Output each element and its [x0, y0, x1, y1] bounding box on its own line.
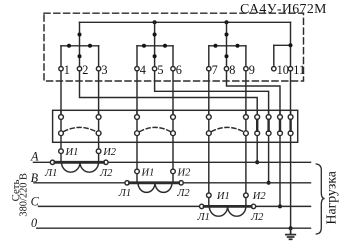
node bus tap phase C: [225, 20, 229, 24]
svg-text:Л2: Л2: [250, 212, 264, 223]
terminal 10: [272, 63, 289, 77]
test block column 2: [96, 110, 101, 142]
wire voltage tap neutral: [290, 143, 292, 229]
svg-text:И2: И2: [177, 167, 192, 178]
wire terminal 10-11 link: [274, 22, 293, 66]
test block outline: [53, 110, 298, 142]
element 3 internal wiring: [209, 22, 246, 66]
terminal 3: [96, 63, 107, 77]
svg-text:1: 1: [64, 63, 70, 77]
svg-text:11: 11: [293, 63, 305, 77]
test block column 6: [244, 110, 249, 142]
wire terminal 4 to test block: [136, 71, 138, 115]
element 1 internal wiring: [61, 22, 99, 66]
svg-text:И2: И2: [102, 147, 117, 158]
test block link column B: [266, 110, 271, 142]
wire block to TA1 secondary: [60, 143, 62, 149]
node tap B: [267, 181, 271, 185]
wire voltage tap phase B: [268, 143, 270, 183]
wire terminal 7 to test block: [208, 71, 210, 115]
node tap 0: [289, 226, 293, 230]
svg-text:Л1: Л1: [44, 168, 57, 179]
terminal 9: [244, 63, 255, 77]
node tap A: [255, 160, 259, 164]
svg-text:Л2: Л2: [176, 188, 190, 199]
svg-text:Л2: Л2: [99, 168, 113, 179]
element 2 internal wiring: [137, 22, 173, 66]
wire terminal 9 to test block: [245, 71, 247, 115]
svg-text:10: 10: [277, 63, 289, 77]
transformer TA2: [125, 169, 183, 192]
wire block to TA2 secondary: [136, 143, 138, 170]
test block column 5: [206, 110, 211, 142]
svg-text:2: 2: [82, 63, 88, 77]
svg-text:И1: И1: [216, 191, 230, 202]
test block link column A: [255, 110, 260, 142]
wire terminal 1 to test block: [60, 71, 62, 115]
terminal 1: [59, 63, 70, 77]
test block link column C: [278, 110, 283, 142]
wire phase C: [39, 205, 200, 207]
wire terminal 11 to test block: [290, 71, 292, 115]
svg-text:380/220 В: 380/220 В: [18, 173, 29, 217]
svg-text:A: A: [30, 150, 39, 164]
wire phase A: [34, 161, 51, 163]
wire voltage tap phase C: [279, 143, 281, 207]
wire terminal 2 to test block: [80, 71, 258, 115]
terminal 6: [171, 63, 182, 77]
svg-text:И1: И1: [65, 147, 79, 158]
svg-text:Нагрузка: Нагрузка: [324, 171, 339, 224]
meter dashed outline: [44, 13, 304, 81]
wire terminal 3 to test block: [98, 71, 100, 115]
svg-text:9: 9: [249, 63, 255, 77]
svg-text:И1: И1: [141, 167, 155, 178]
label Сеть 380/220 В: [10, 173, 30, 217]
wire phase B: [34, 182, 125, 184]
test block column 3: [135, 110, 140, 142]
svg-text:4: 4: [140, 63, 146, 77]
jumper arc 3: [212, 127, 244, 131]
terminal 8: [224, 63, 235, 77]
node bus tap phase B: [153, 20, 157, 24]
svg-text:И2: И2: [252, 191, 267, 202]
wire terminal 8 to test block: [227, 71, 281, 115]
wire terminal 6 to test block: [172, 71, 174, 115]
svg-text:3: 3: [101, 63, 107, 77]
svg-text:5: 5: [157, 63, 163, 77]
wire terminal 5 to test block: [155, 71, 269, 115]
test block column 1: [59, 110, 64, 142]
jumper arc 1: [64, 127, 96, 131]
terminal 4: [135, 63, 146, 77]
ground: [286, 228, 295, 239]
wire neutral 0: [37, 227, 311, 229]
jumper arc 2: [140, 127, 170, 131]
svg-text:Л1: Л1: [118, 188, 131, 199]
wire block to TA3 secondary: [208, 143, 210, 194]
load brace: [316, 164, 324, 234]
svg-text:Л1: Л1: [197, 212, 210, 223]
wire voltage tap phase A: [256, 143, 258, 163]
terminal 2: [77, 63, 88, 77]
transformer TA3: [200, 193, 256, 216]
svg-text:6: 6: [176, 63, 182, 77]
svg-text:7: 7: [212, 63, 218, 77]
wire voltage bus: [80, 21, 291, 23]
terminal 5: [152, 63, 163, 77]
test block link column 0: [288, 110, 293, 142]
terminal 11: [288, 63, 305, 77]
svg-text:8: 8: [229, 63, 235, 77]
node tap C: [278, 204, 282, 208]
terminal 7: [207, 63, 218, 77]
transformer TA1: [50, 149, 108, 172]
test block column 4: [171, 110, 176, 142]
